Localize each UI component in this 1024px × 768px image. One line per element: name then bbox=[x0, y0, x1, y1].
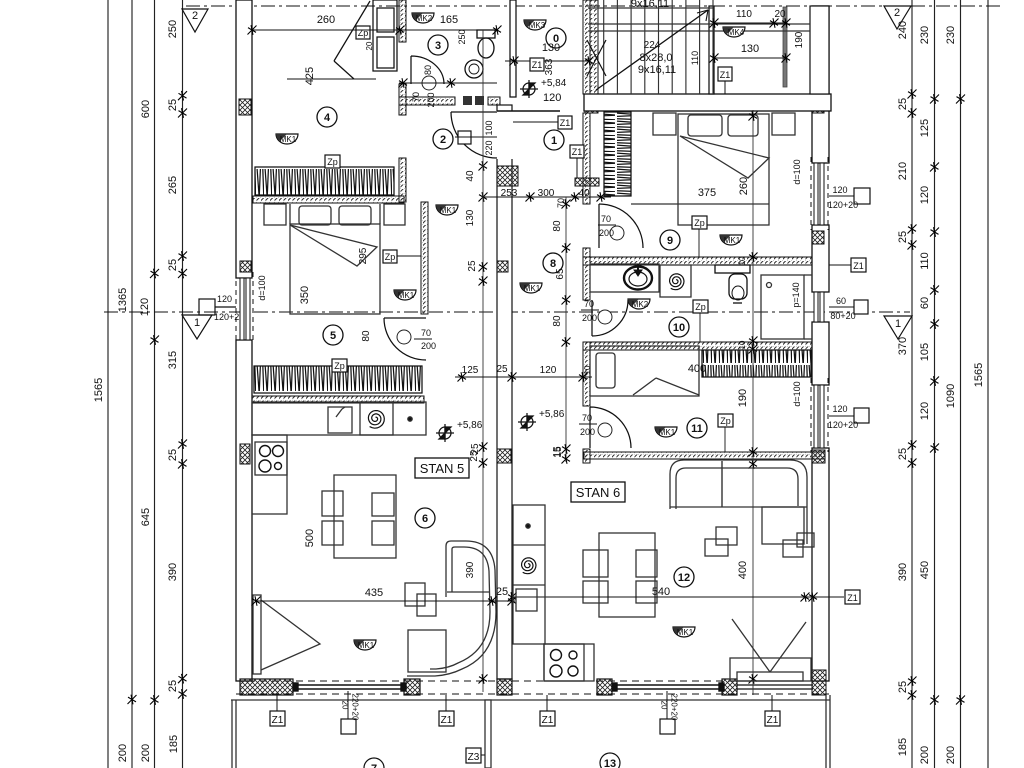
bed stan6 room9 bbox=[653, 113, 795, 225]
svg-text:250: 250 bbox=[457, 29, 467, 44]
svg-text:220+20: 220+20 bbox=[351, 694, 360, 721]
svg-text:120: 120 bbox=[919, 186, 931, 204]
svg-text:25: 25 bbox=[467, 260, 478, 272]
spine pier block 3 bbox=[497, 449, 511, 463]
svg-text:125: 125 bbox=[462, 365, 479, 376]
spine door opening room2 (white gap) bbox=[496, 111, 513, 159]
door square marker stan6 terrace bbox=[660, 719, 675, 734]
svg-text:11: 11 bbox=[691, 423, 703, 435]
terrace window stan6 right bbox=[737, 685, 813, 689]
svg-text:25: 25 bbox=[167, 449, 179, 461]
chain line detail left bbox=[182, 0, 184, 768]
dim 260 line bbox=[252, 29, 497, 31]
svg-text:130: 130 bbox=[542, 42, 560, 54]
circled 5 bbox=[323, 325, 343, 345]
svg-text:MK1: MK1 bbox=[524, 284, 541, 293]
svg-text:13: 13 bbox=[604, 758, 616, 768]
circled 7 lower floor bbox=[364, 758, 384, 768]
Zp label band A bbox=[325, 155, 340, 168]
washer spiral box bath10 bbox=[660, 265, 691, 297]
dim line 435 bbox=[256, 600, 515, 602]
svg-text:12: 12 bbox=[678, 572, 690, 584]
svg-text:p=140: p=140 bbox=[791, 282, 801, 307]
left wall pier block 3 bbox=[240, 444, 250, 464]
svg-text:25: 25 bbox=[167, 99, 179, 111]
wall below fur band B bbox=[252, 396, 424, 403]
svg-text:25: 25 bbox=[470, 443, 481, 455]
svg-text:MK2: MK2 bbox=[632, 300, 649, 309]
right window 1 dim square and texts bbox=[854, 188, 870, 204]
svg-text:Zp: Zp bbox=[334, 361, 345, 371]
svg-text:200: 200 bbox=[426, 92, 436, 107]
Z3 label bottom bbox=[466, 748, 481, 763]
svg-text:265: 265 bbox=[167, 176, 179, 194]
interior dim line y377 corridor bottom bbox=[455, 376, 592, 378]
lower floor party wall bbox=[485, 700, 491, 768]
coffee tables stan5 bbox=[405, 583, 436, 616]
right wall pier block top bbox=[812, 100, 824, 113]
spine pier block 1 bbox=[497, 166, 518, 186]
Zp label room9 bbox=[692, 216, 707, 229]
+5,86 marker stan5 bbox=[436, 424, 454, 442]
central spine wall upper (x510) bbox=[510, 0, 516, 97]
svg-text:Z3: Z3 bbox=[468, 752, 480, 763]
wall right of bed5 (x421) bbox=[421, 202, 428, 314]
interior dim line y197 bbox=[483, 196, 611, 198]
circled 8 corridor bbox=[543, 253, 563, 273]
fur band B (wardrobe room5/6) bbox=[254, 366, 422, 393]
right exterior wall: segments between windows bbox=[812, 6, 829, 681]
door room3 arc bbox=[411, 56, 444, 84]
MK1 room6 bbox=[354, 640, 376, 650]
svg-text:80: 80 bbox=[552, 315, 563, 327]
svg-text:Zp: Zp bbox=[385, 252, 396, 262]
bottom wall block D bbox=[597, 679, 612, 695]
svg-text:390: 390 bbox=[465, 561, 476, 578]
svg-text:224: 224 bbox=[644, 40, 661, 51]
svg-text:600: 600 bbox=[140, 100, 152, 118]
corridor wall x583 seg2 bbox=[583, 248, 590, 300]
interior chain x753 bbox=[752, 110, 754, 695]
right window 1 bbox=[811, 157, 828, 230]
pillows bbox=[299, 206, 331, 225]
svg-text:120+20: 120+20 bbox=[828, 200, 858, 210]
svg-text:70: 70 bbox=[421, 328, 431, 338]
svg-text:120: 120 bbox=[919, 402, 931, 420]
Z1 label hall b bbox=[570, 145, 584, 158]
svg-text:MK1: MK1 bbox=[440, 206, 457, 215]
central spine wall (x497-512) bbox=[497, 105, 512, 679]
lower floor left edge bbox=[231, 700, 233, 768]
Zp label room5 bbox=[383, 250, 397, 263]
svg-text:80: 80 bbox=[361, 330, 372, 342]
stair landing double line bbox=[588, 23, 810, 25]
svg-text:8x28,0: 8x28,0 bbox=[639, 52, 672, 64]
svg-text:400: 400 bbox=[688, 363, 706, 375]
wall room2 top horizontal bbox=[399, 97, 455, 105]
fur band A (wardrobe room4) bbox=[255, 167, 394, 195]
Z1 label bottom-right wall bbox=[772, 596, 844, 598]
right window 3 dim square and texts bbox=[854, 408, 869, 423]
wall below vestibule (y105-111) bbox=[497, 110, 560, 112]
svg-text:450: 450 bbox=[919, 561, 931, 579]
left ticks bbox=[128, 91, 188, 705]
svg-text:80: 80 bbox=[423, 65, 433, 75]
MK1 room4 bbox=[276, 134, 298, 144]
svg-text:40: 40 bbox=[578, 188, 590, 199]
right window 3 (120) bbox=[811, 378, 828, 452]
svg-text:80+20: 80+20 bbox=[830, 311, 855, 321]
sofa stan6 L-shaped bbox=[670, 460, 807, 544]
bottom wall block E bbox=[722, 679, 737, 695]
svg-text:80: 80 bbox=[552, 220, 563, 232]
door bath10 arc bbox=[592, 300, 628, 336]
svg-text:260: 260 bbox=[738, 177, 750, 195]
right axis triangle 2 top bbox=[884, 6, 911, 29]
svg-text:9: 9 bbox=[667, 235, 673, 247]
svg-text:200: 200 bbox=[140, 744, 152, 762]
middle axis dash-dot line bbox=[104, 311, 910, 313]
svg-text:MK1: MK1 bbox=[280, 135, 297, 144]
svg-text:190: 190 bbox=[794, 31, 805, 48]
Z1 label bottom 4 bbox=[765, 711, 780, 726]
svg-text:20: 20 bbox=[365, 41, 374, 50]
svg-text:210: 210 bbox=[897, 162, 909, 180]
terrace sliding door stan6 bbox=[612, 683, 724, 691]
Zp label room11 bbox=[718, 414, 733, 427]
svg-text:260: 260 bbox=[317, 14, 335, 26]
terrace sliding door stan5 bbox=[293, 683, 406, 691]
svg-text:Zp: Zp bbox=[695, 302, 706, 312]
STAN 6 label bbox=[571, 482, 625, 502]
MK3 symbol bbox=[524, 20, 546, 30]
MK2 bath10 bbox=[628, 299, 650, 309]
svg-text:1: 1 bbox=[551, 135, 557, 147]
kitchen counter top row bbox=[252, 402, 426, 435]
right exterior wall upper x810 bbox=[810, 6, 829, 94]
wall room4/room5 vertical lower bbox=[399, 158, 406, 202]
door dim texts 100/220 bbox=[455, 136, 497, 138]
svg-text:220+20: 220+20 bbox=[670, 694, 679, 721]
svg-text:363: 363 bbox=[544, 58, 555, 75]
svg-text:105: 105 bbox=[919, 343, 931, 361]
svg-text:1090: 1090 bbox=[945, 384, 957, 408]
+5,86 marker stan6 bbox=[518, 413, 536, 431]
landing wall x783 bbox=[783, 7, 787, 87]
Z1 label landing bbox=[718, 67, 732, 81]
svg-text:390: 390 bbox=[897, 563, 909, 581]
left wall pier block 2 bbox=[240, 261, 251, 272]
svg-text:200: 200 bbox=[945, 746, 957, 764]
wall below fur band A bbox=[253, 196, 404, 203]
right ticks bbox=[908, 89, 966, 705]
svg-text:8: 8 bbox=[550, 258, 556, 270]
svg-text:3: 3 bbox=[435, 40, 441, 52]
svg-text:165: 165 bbox=[440, 14, 458, 26]
svg-text:540: 540 bbox=[652, 586, 670, 598]
TV stan6 bottom bbox=[730, 619, 811, 681]
svg-text:220: 220 bbox=[484, 140, 494, 155]
corridor wall x583 seg4 bbox=[583, 449, 590, 463]
interior chain x566 (door dims) bbox=[565, 197, 567, 462]
MK1 room2 bbox=[436, 205, 458, 215]
sink room3 bbox=[465, 60, 483, 78]
lower floor right edge bbox=[825, 695, 827, 768]
Zp label bath10 bbox=[693, 300, 708, 313]
svg-text:1565: 1565 bbox=[93, 378, 105, 402]
shower bath10 bbox=[761, 275, 812, 339]
corridor wall x583 seg3 bbox=[583, 342, 590, 406]
right wall pier block bottom bbox=[812, 670, 826, 695]
svg-text:120: 120 bbox=[139, 298, 151, 316]
svg-text:1565: 1565 bbox=[973, 363, 985, 387]
door room9 arc bbox=[599, 204, 643, 248]
svg-text:200: 200 bbox=[421, 341, 436, 351]
bed stan5 bbox=[264, 204, 405, 314]
svg-text:7: 7 bbox=[371, 763, 377, 768]
bottom wall block A bbox=[240, 679, 293, 695]
MK2 symbol room3 bbox=[412, 13, 434, 23]
line right of wardrobe bbox=[631, 203, 769, 205]
stair treads bbox=[589, 0, 591, 94]
bottom wall block C (spine end) bbox=[497, 679, 512, 695]
MK1 room11 bbox=[655, 427, 677, 437]
svg-text:295: 295 bbox=[358, 247, 369, 264]
bathroom top wall (y257) bbox=[583, 257, 812, 265]
svg-text:645: 645 bbox=[140, 508, 152, 526]
nightstands bbox=[264, 204, 286, 225]
kitchen stan6 bottom counter + stove bbox=[544, 644, 594, 681]
Zp label band B bbox=[332, 359, 347, 372]
svg-text:500: 500 bbox=[304, 529, 316, 547]
svg-text:+5,86: +5,86 bbox=[539, 409, 565, 420]
room11 bottom wall (y452) bbox=[584, 452, 825, 459]
svg-text:25: 25 bbox=[897, 98, 909, 110]
svg-text:2: 2 bbox=[192, 10, 198, 22]
svg-text:Z1: Z1 bbox=[272, 715, 284, 726]
pocket door marks room2 top bbox=[463, 96, 472, 105]
svg-text:250: 250 bbox=[167, 20, 179, 38]
vanity counter bbox=[590, 264, 659, 292]
MK1 room5 bbox=[394, 290, 416, 300]
Z1 label vestibule bbox=[530, 58, 544, 71]
svg-text:185: 185 bbox=[168, 735, 180, 753]
svg-text:Z1: Z1 bbox=[532, 60, 543, 70]
svg-text:70: 70 bbox=[582, 413, 592, 423]
svg-text:MK2: MK2 bbox=[416, 14, 433, 23]
circled 9 bbox=[660, 230, 680, 250]
Z1 label right mid bbox=[845, 590, 860, 604]
svg-text:Zp: Zp bbox=[327, 157, 338, 167]
wall room4/room3 vertical (x399) upper bbox=[399, 0, 406, 42]
svg-text:6: 6 bbox=[422, 513, 428, 525]
chain line 1090 right bbox=[960, 0, 962, 768]
svg-text:375: 375 bbox=[698, 187, 716, 199]
door square marker stan5 terrace bbox=[341, 719, 356, 734]
kitchen stan6 column bbox=[513, 505, 545, 644]
door room11 arc bbox=[590, 407, 631, 448]
svg-text:370: 370 bbox=[897, 337, 909, 355]
svg-text:350: 350 bbox=[299, 286, 311, 304]
svg-text:15: 15 bbox=[553, 446, 564, 458]
svg-text:MK1: MK1 bbox=[358, 641, 375, 650]
svg-text:MK1: MK1 bbox=[659, 428, 676, 437]
svg-text:+5,84: +5,84 bbox=[541, 78, 567, 89]
fur band C (vertical wardrobe room9) bbox=[604, 112, 631, 196]
svg-text:200: 200 bbox=[919, 746, 931, 764]
corridor wall x583 seg1 bbox=[583, 113, 590, 204]
landing dim line 130 bbox=[714, 57, 786, 59]
svg-text:+5,86: +5,86 bbox=[457, 420, 483, 431]
Z1 label right wall upper bbox=[851, 258, 866, 272]
stair right wall x709 bbox=[709, 6, 714, 94]
circled 3 bbox=[428, 35, 448, 55]
spine pier block 1b bbox=[575, 178, 599, 186]
+5,84 elevation marker bbox=[520, 80, 538, 98]
left window (stan5 bedroom) bbox=[236, 272, 253, 344]
svg-text:MK1: MK1 bbox=[398, 291, 415, 300]
Z1 label hall a bbox=[558, 116, 572, 129]
svg-text:STAN 6: STAN 6 bbox=[576, 485, 621, 500]
svg-text:25: 25 bbox=[897, 231, 909, 243]
circled 4 bbox=[317, 107, 337, 127]
stair section X cross bbox=[587, 40, 606, 76]
Zp label closet room4 bbox=[356, 26, 370, 39]
svg-text:20: 20 bbox=[341, 701, 350, 710]
side tables right bbox=[783, 533, 814, 557]
svg-text:4: 4 bbox=[324, 112, 331, 124]
fold triangle bbox=[290, 225, 377, 266]
svg-text:d=100: d=100 bbox=[792, 381, 802, 406]
svg-text:70: 70 bbox=[601, 214, 611, 224]
dot unit bbox=[408, 417, 412, 421]
spine pier block 2 bbox=[497, 261, 508, 272]
bed room11 bbox=[590, 346, 699, 396]
top axis dash-dot line bbox=[186, 5, 1000, 7]
svg-text:20: 20 bbox=[774, 9, 786, 20]
svg-text:20: 20 bbox=[660, 701, 669, 710]
svg-text:25: 25 bbox=[897, 681, 909, 693]
washer bbox=[328, 407, 352, 433]
circled 11 bbox=[687, 418, 707, 438]
svg-text:390: 390 bbox=[167, 563, 179, 581]
svg-text:MK1: MK1 bbox=[724, 236, 741, 245]
svg-text:120: 120 bbox=[832, 185, 847, 195]
wc bath10 bbox=[715, 265, 750, 303]
Z1 label bottom 1 bbox=[270, 711, 285, 726]
svg-text:60: 60 bbox=[836, 296, 846, 306]
closet open door diagonals bbox=[334, 1, 370, 79]
svg-text:315: 315 bbox=[167, 351, 179, 369]
svg-text:2: 2 bbox=[440, 134, 446, 146]
left wall pier block 1 bbox=[239, 99, 251, 115]
svg-text:120: 120 bbox=[540, 365, 557, 376]
svg-text:Z1: Z1 bbox=[572, 147, 583, 157]
coffee tables stan6 bbox=[705, 527, 737, 556]
circled 0 bbox=[546, 28, 566, 48]
right wall pier block 3 bbox=[812, 450, 825, 463]
svg-text:230: 230 bbox=[945, 26, 957, 44]
Z1 label bottom 2 bbox=[439, 711, 454, 726]
sink spiral bbox=[368, 411, 384, 429]
fur band D (wardrobe room11) bbox=[702, 350, 811, 377]
svg-text:40: 40 bbox=[465, 170, 476, 182]
svg-text:253: 253 bbox=[501, 188, 518, 199]
right window 2 (60) bbox=[813, 292, 825, 322]
svg-text:1365: 1365 bbox=[117, 288, 129, 312]
bathroom bottom wall (y342) bbox=[583, 342, 812, 350]
TV bench stan5 bbox=[253, 595, 320, 674]
svg-text:MK4: MK4 bbox=[728, 28, 745, 37]
svg-text:200: 200 bbox=[117, 744, 129, 762]
svg-text:MK1: MK1 bbox=[677, 628, 694, 637]
dining table stan6 bbox=[583, 533, 657, 617]
svg-text:120+20: 120+20 bbox=[828, 420, 858, 430]
circled 13 lower floor bbox=[600, 753, 620, 768]
left exterior wall lower segment bbox=[236, 340, 252, 681]
svg-text:Z1: Z1 bbox=[542, 715, 554, 726]
svg-text:60: 60 bbox=[919, 297, 931, 309]
right window 2 dim square and texts bbox=[854, 300, 868, 314]
sofa stan5 bbox=[407, 541, 496, 676]
spiral sink unit bbox=[360, 402, 393, 435]
svg-text:230: 230 bbox=[919, 26, 931, 44]
circled 1 bbox=[544, 130, 564, 150]
door room5 arc bbox=[384, 318, 426, 360]
svg-text:5: 5 bbox=[330, 330, 336, 342]
svg-text:25: 25 bbox=[897, 448, 909, 460]
svg-text:190: 190 bbox=[737, 389, 749, 407]
MK1 room9 bbox=[720, 235, 742, 245]
svg-text:240: 240 bbox=[897, 21, 909, 39]
left axis triangle 1 with window box bbox=[199, 299, 215, 315]
svg-text:d=100: d=100 bbox=[257, 275, 267, 300]
left axis triangle 2 bbox=[182, 9, 208, 32]
STAN 5 label bbox=[415, 458, 469, 478]
svg-text:Z1: Z1 bbox=[847, 593, 858, 603]
chain line 1565 left bbox=[107, 0, 109, 768]
svg-text:10: 10 bbox=[738, 256, 747, 265]
top wall of room9 (y94) bbox=[584, 94, 831, 111]
svg-text:70: 70 bbox=[584, 299, 594, 309]
svg-text:Z1: Z1 bbox=[720, 70, 731, 80]
right wall pier block 2 bbox=[812, 231, 824, 244]
kitchen counter left column bbox=[252, 435, 287, 514]
svg-text:70: 70 bbox=[411, 92, 421, 102]
svg-text:120: 120 bbox=[832, 404, 847, 414]
svg-text:200: 200 bbox=[599, 228, 614, 238]
bottom wall block B bbox=[404, 679, 420, 695]
svg-text:110: 110 bbox=[690, 51, 700, 65]
svg-text:110: 110 bbox=[919, 252, 931, 270]
MK4 symbol bbox=[723, 27, 745, 37]
right dimension labels bbox=[897, 21, 985, 764]
stair up arrow diagonal bbox=[596, 10, 708, 90]
svg-text:125: 125 bbox=[919, 119, 931, 137]
Z1 label bottom 3 bbox=[540, 711, 555, 726]
wall room4/room3 vertical mid bbox=[399, 84, 406, 115]
svg-text:10: 10 bbox=[673, 322, 685, 334]
stove burners bbox=[259, 446, 284, 473]
svg-text:STAN 5: STAN 5 bbox=[420, 461, 465, 476]
room4 shelf line bbox=[287, 78, 376, 80]
MK1 room12 bbox=[673, 627, 695, 637]
stair left wall (x589) bbox=[583, 0, 598, 94]
interior chain x483 bbox=[482, 30, 484, 692]
svg-text:10: 10 bbox=[583, 365, 592, 374]
chain line 1365 left bbox=[131, 0, 133, 768]
chain line 1565 right bbox=[987, 0, 989, 768]
